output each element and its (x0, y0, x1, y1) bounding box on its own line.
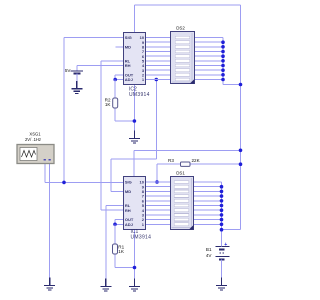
wire IC1 V+ to rail (133, 150, 135, 177)
wire IC1 RL to ground (106, 205, 124, 207)
op-amp U-driver IC2 UM3914 (124, 33, 150, 99)
wire IC2 MD stub (116, 46, 124, 48)
svg-text:UM3914: UM3914 (131, 235, 152, 241)
wire IC2 ADJ (115, 79, 123, 81)
wire IC1 ADJ (115, 223, 124, 225)
ground G3 (XSG1) (44, 278, 55, 291)
svg-text:4V: 4V (206, 253, 213, 258)
svg-text:ADJ: ADJ (125, 77, 133, 82)
svg-text:1K: 1K (118, 249, 125, 254)
node DS2 bus junctions (221, 40, 242, 86)
wire IC1 outputs to DS1 (146, 182, 172, 224)
svg-text:RH: RH (125, 208, 131, 213)
node rail/IC1 V+ (239, 149, 243, 153)
node DS1 bus junctions (220, 185, 224, 232)
ground G1 (5V source) (71, 81, 82, 94)
svg-text:XSG1: XSG1 (29, 132, 41, 137)
svg-text:SIG: SIG (125, 180, 132, 185)
svg-text:5V: 5V (65, 68, 72, 73)
wire SIG left rail (63, 38, 65, 183)
wire IC2 OUT (115, 74, 123, 76)
wire IC1 SIG (45, 181, 124, 183)
op-amp U-driver IC1 UM3914 (124, 177, 152, 241)
resistor R2 1K (105, 97, 118, 108)
wire IC1 OUT (115, 219, 124, 221)
ground G2 (IC2) (129, 131, 140, 144)
ground G4 (IC1 RL) (100, 279, 111, 292)
LED bargraph DS2 (171, 26, 195, 84)
svg-text:1K: 1K (105, 102, 112, 107)
node rail/R3 (239, 162, 243, 166)
wire IC1 V- (134, 229, 136, 286)
node R3/IC1 pin10 junction (155, 180, 159, 184)
svg-text:22K: 22K (192, 158, 201, 163)
svg-text:DS1: DS1 (176, 171, 185, 176)
wire R1 bottom (114, 254, 116, 268)
wire XSG1 - lead to ground (49, 164, 51, 286)
wire IC2 RL to IC1 RH chain (101, 60, 124, 62)
battery B1 4V (206, 242, 230, 286)
svg-text:UM3914: UM3914 (129, 92, 150, 98)
wire 5V to IC2 RH (77, 65, 124, 67)
svg-text:MD: MD (125, 189, 131, 194)
node IC2 pin1 junction (155, 78, 159, 82)
svg-text:SIG: SIG (125, 35, 132, 40)
wire R3 right to rail (190, 163, 241, 165)
svg-text:2V/ .1Hz: 2V/ .1Hz (25, 137, 41, 142)
wire R2 bottom (114, 108, 116, 121)
wire V+ right rail (240, 5, 242, 230)
svg-text:R3: R3 (168, 158, 174, 163)
wire IC2 V- (133, 84, 135, 131)
wire IC1 ADJ to R1 (114, 224, 116, 244)
node IC2 OUT/ADJ junction (113, 78, 117, 82)
wire IC2 V+ stub (133, 5, 135, 32)
node XSG1/SIG junction (62, 181, 66, 185)
resistor R3 22K (168, 158, 201, 166)
power source 5V (65, 68, 83, 86)
node IC1 OUT/ADJ junction (113, 223, 117, 227)
wire IC2 ADJ to R2 (114, 80, 116, 99)
resistor R1 1K (113, 244, 125, 254)
wire DS1 common bus (194, 182, 241, 247)
wire IC2 pin1 to IC1 MD chain (155, 80, 157, 159)
signal generator XSG1 (17, 132, 54, 164)
svg-text:MD: MD (125, 44, 131, 49)
ground G6 (IC1 V-) (129, 279, 140, 292)
wire IC2 SIG (64, 37, 123, 39)
svg-text:B1: B1 (206, 247, 212, 252)
wire DS2 common bus (194, 38, 240, 85)
wire R3 left to IC1 pin10 (157, 163, 181, 165)
wire IC2 outputs to DS2 (145, 38, 170, 80)
svg-text:ADJ: ADJ (125, 222, 133, 227)
svg-text:DS2: DS2 (176, 26, 185, 31)
node R2/IC2 V- junction (133, 119, 137, 123)
wire XSG1 + lead (44, 164, 46, 183)
node R1/IC1 V- junction (133, 266, 137, 270)
ground G5 (B1) (216, 278, 227, 291)
LED bargraph DS1 (171, 171, 194, 230)
svg-text:RH: RH (125, 63, 131, 68)
wire V+ top rail (134, 4, 240, 6)
